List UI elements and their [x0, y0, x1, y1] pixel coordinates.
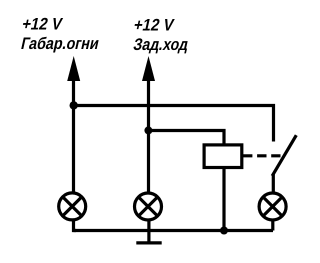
- dashed actuation link: [243, 154, 281, 157]
- arrow head right supply: [142, 56, 155, 81]
- wire top horizontal with corner to switch: [74, 106, 274, 142]
- wire lamp HL2 to ground: [147, 220, 150, 243]
- node junction middle: [144, 126, 152, 134]
- wire switch to right lamp: [272, 175, 275, 194]
- switch blade: [272, 135, 296, 176]
- wire lamp HL3 to bus: [271, 220, 274, 231]
- node junction bus: [220, 227, 228, 235]
- node junction left: [70, 101, 78, 109]
- lamp HL1: [59, 193, 86, 220]
- wire lamp HL1 to bus: [74, 220, 77, 231]
- wire middle vertical: [147, 75, 150, 193]
- ground: [136, 241, 161, 244]
- wire ground bus: [74, 229, 274, 232]
- svg-text:Габар.огни: Габар.огни: [19, 34, 101, 53]
- relay coil K1: [204, 145, 242, 168]
- wire left vertical: [72, 75, 75, 193]
- svg-text:+12 V: +12 V: [132, 16, 176, 35]
- net label +12V Зад.ход: [132, 16, 191, 54]
- svg-text:Зад.ход: Зад.ход: [132, 35, 191, 54]
- wire middle to relay: [149, 131, 225, 146]
- arrow head left supply: [67, 56, 80, 81]
- wire relay to ground bus: [222, 168, 225, 231]
- svg-text:+12 V: +12 V: [20, 15, 64, 34]
- lamp HL3: [259, 193, 286, 220]
- net label +12V Габар.огни: [19, 15, 101, 53]
- lamp HL2: [135, 193, 162, 220]
